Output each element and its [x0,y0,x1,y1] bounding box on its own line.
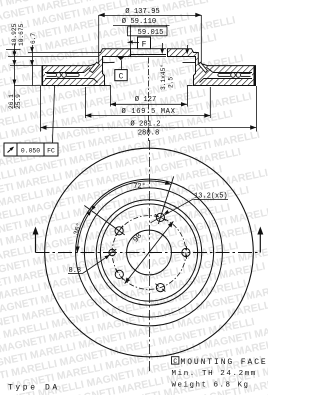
datum F box [138,37,151,49]
disc section left half (hatched) [43,49,131,86]
svg-text:72°: 72° [133,182,146,191]
dim 59 ext left [130,25,132,52]
channel funnel right [207,68,213,73]
dim 127 ext lines [110,86,112,107]
svg-text:2.5: 2.5 [168,77,175,88]
front vertical centerline [149,140,151,371]
svg-text:10.675: 10.675 [18,23,25,46]
dim 127 line [110,103,187,105]
basic dim frame 59.015 [128,27,168,36]
ext line mounting face [8,56,99,58]
bolt hole 144deg [115,227,123,235]
dim 281.2 line [41,127,257,129]
channel funnel left [85,68,91,73]
vent vanes right [241,73,251,75]
vent channel left borders [45,72,85,74]
bolt hole 288deg [156,284,164,292]
dim 59 ext right [165,25,167,27]
disc section right half (hatched) [168,49,256,86]
dim 169.5 ext lines [84,87,86,118]
section view arrow left [35,234,37,253]
relief groove left [90,62,100,72]
svg-text:Ø 281.2: Ø 281.2 [130,119,160,128]
svg-text:F: F [142,40,147,49]
runout frame leader [52,86,54,144]
front circle dia169.5 [84,188,213,317]
runout tolerance frame [4,143,58,156]
svg-text:Weight 6.8 Kg: Weight 6.8 Kg [172,381,250,389]
ext line band top [10,65,45,67]
hat interior ledge left [102,62,115,64]
datum C box [115,70,127,81]
PCD dim line 98 [125,221,174,283]
dim 137.95 ext left [98,15,100,52]
svg-text:C: C [173,358,177,365]
svg-text:6.7: 6.7 [30,33,37,44]
relief groove right [199,62,208,72]
bolt hole 72deg [156,213,164,221]
hat interior ledge right [183,62,196,64]
svg-text:Type DA: Type DA [8,384,60,393]
ext line ledge [28,52,99,54]
section view arrow right [259,234,261,253]
datum C leader [121,60,123,69]
svg-text:Ø 169.5 MAX: Ø 169.5 MAX [121,107,175,116]
bore far-side edges [130,54,166,56]
bolt hole 216deg [115,270,123,278]
dim 137.95 ext right [200,15,202,64]
datum F leader [128,42,140,44]
bolt hole 0deg [182,248,190,256]
hat mouth rim left [104,85,110,87]
band outer edge right [253,66,255,85]
svg-text:MOUNTING FACE: MOUNTING FACE [181,358,268,367]
svg-text:C: C [119,73,124,82]
front circle dia137.95 [96,200,201,305]
svg-text:280.8: 280.8 [138,130,160,138]
vent channel right borders [213,72,253,74]
front outer circle dia281 [45,148,254,357]
front bolt circle PCD98 [112,216,186,290]
svg-text:Min. TH 24.2mm: Min. TH 24.2mm [172,370,257,378]
front circle dia127 [100,204,197,301]
svg-text:0.050: 0.050 [21,147,40,154]
vent channel left void [45,72,85,78]
chamfer leader right [187,45,189,50]
dim 169.5 line [85,115,210,117]
section centerline [148,58,150,142]
radial through hole 72 [158,176,173,224]
ext line band bottom [14,85,45,87]
radial through hole 144 [84,206,124,235]
angle dim arc [78,181,172,253]
svg-text:25.9: 25.9 [15,94,22,109]
band outer edge left [41,66,43,85]
svg-text:Ø 59.110: Ø 59.110 [122,17,157,26]
front section cut line [36,252,261,254]
dim 10.925 and 26.1 line [13,44,15,108]
vent vanes left [47,73,57,75]
svg-text:3.1x45°: 3.1x45° [160,64,167,90]
svg-text:Ø 127: Ø 127 [135,95,157,104]
boss top far-side edge [130,48,166,50]
svg-text:Ø 137.95: Ø 137.95 [125,7,160,16]
front center bore dia59 [127,230,172,275]
leader 8.8 [83,255,110,274]
dim 6.7 line [32,45,34,86]
front circle braking inner rim [76,179,223,326]
dim 137.95 line [99,15,202,17]
ext stub boss top [6,49,21,51]
dim 59 line [113,25,170,27]
chamfer leader left [162,43,164,49]
dim 281.2 ext lines [40,86,42,132]
legend mounting face [172,357,179,364]
angle arc arrows [165,181,171,185]
vent channel right void [213,72,253,78]
svg-text:59.015: 59.015 [138,29,164,37]
locating hole 8.8 [109,249,115,255]
leader 13.2 [151,199,194,223]
svg-text:FC: FC [47,147,55,154]
datum C triangle [117,57,125,61]
hat mouth rim right [187,85,193,87]
